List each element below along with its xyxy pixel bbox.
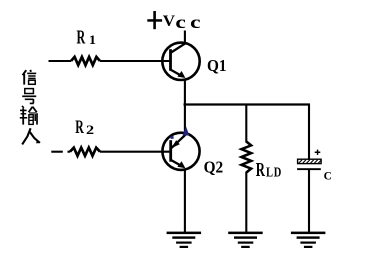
- svg-text:R: R: [75, 117, 84, 137]
- svg-text:cc: cc: [175, 11, 204, 32]
- svg-text:1: 1: [89, 32, 96, 46]
- svg-text:LD: LD: [266, 164, 282, 180]
- svg-text:R: R: [256, 158, 266, 181]
- svg-text:C: C: [324, 169, 332, 182]
- svg-text:2: 2: [86, 123, 94, 137]
- svg-text:R: R: [77, 27, 86, 49]
- svg-text:Q2: Q2: [204, 159, 224, 177]
- svg-text:Q1: Q1: [207, 58, 227, 76]
- svg-text:V: V: [163, 12, 176, 30]
